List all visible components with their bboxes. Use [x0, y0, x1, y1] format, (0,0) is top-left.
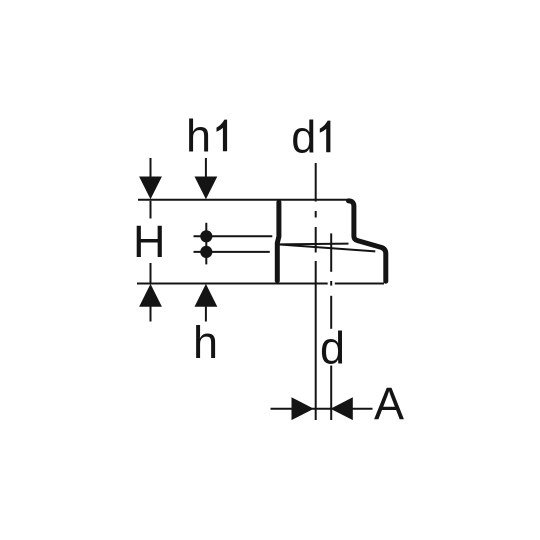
- arrowhead: A right (points left): [331, 397, 353, 420]
- wire: d1 centerline long segment down through A line: [315, 261, 317, 420]
- fitting left socket edge: [277, 202, 279, 280]
- wire: d1 centerline mid segment: [315, 227, 317, 253]
- wire: H dimension segment above bottom line: [150, 263, 152, 283]
- arrowhead: H top (down): [139, 177, 162, 200]
- svg-text:d: d: [320, 323, 345, 374]
- arrowheads: [139, 177, 353, 421]
- wire: d1 centerline solid segment below label: [315, 163, 317, 202]
- arrowhead: H bottom (up): [139, 284, 162, 307]
- wire: bottom dimension line right part: [335, 283, 384, 285]
- wire: A dimension line (y=408.7): [271, 408, 373, 410]
- wire: taper line lower inside fitting: [278, 244, 375, 251]
- svg-text:d: d: [291, 112, 316, 163]
- wire: bottom dimension line (lower reference, y=283.5) left part: [137, 283, 328, 285]
- arrowhead: A left (points right): [292, 397, 314, 420]
- svg-text:A: A: [374, 378, 404, 429]
- wire: upper dot leader line: [194, 235, 273, 237]
- fitting right edge with shoulder step: [349, 201, 386, 281]
- svg-text:h: h: [186, 111, 211, 162]
- wire: d centerline segment below d label: [330, 366, 332, 421]
- wire: h1 arrow stem above top line (x=205.9): [205, 158, 207, 182]
- node: upper reference dot: [200, 230, 212, 242]
- node: lower reference dot: [200, 246, 212, 258]
- wire: H dimension stem above top line (x=150.5): [150, 158, 152, 182]
- wire: top dimension line (upper reference, y=199.8): [138, 199, 351, 201]
- arrowhead: h (up): [195, 284, 218, 307]
- wire: h arrow stem below bottom line: [205, 301, 207, 322]
- fitting body outline (thick): [277, 201, 386, 281]
- wire: d centerline dot at bottom line: [330, 281, 332, 286]
- wire: d centerline upper segment: [330, 233, 332, 271]
- wire: lower dot leader line: [194, 251, 270, 253]
- wire: H dimension stem below bottom line: [150, 301, 152, 322]
- wire: H dimension segment below top line: [150, 201, 152, 219]
- arrowhead: h1 (down): [195, 177, 218, 200]
- svg-text:H: H: [133, 216, 166, 267]
- wire: d centerline segment above d label: [330, 296, 332, 329]
- svg-text:h: h: [193, 317, 218, 368]
- wire: d1 centerline dot dash: [315, 211, 317, 218]
- node: crosshair vertical through reference dots: [205, 223, 207, 265]
- wire: taper line upper inside fitting: [278, 243, 349, 246]
